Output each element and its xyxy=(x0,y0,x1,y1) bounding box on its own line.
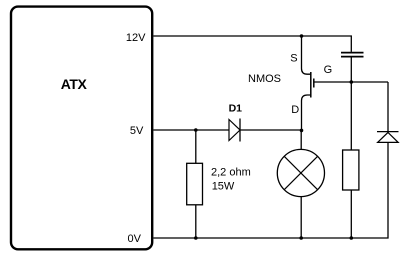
wire drain junction to lamp xyxy=(300,130,302,149)
wire lamp to 0V xyxy=(300,197,302,238)
diode D2 triangle xyxy=(378,132,399,142)
wire 12V rail: ATX to capacitor corner xyxy=(153,36,351,52)
resistor R2 body xyxy=(343,150,359,190)
lamp L1 cross diagonal 1 xyxy=(284,156,317,189)
wire right branch lower xyxy=(153,143,388,238)
svg-text:ATX: ATX xyxy=(61,76,88,92)
channel bar xyxy=(310,72,312,98)
lamp L1 circle xyxy=(277,149,324,196)
node junction 12V/source xyxy=(300,34,304,38)
node junction 5V/drain/lamp xyxy=(300,129,304,133)
ATX power supply box xyxy=(11,7,152,250)
svg-text:NMOS: NMOS xyxy=(248,73,281,85)
diode D1 cathode bar xyxy=(239,119,241,142)
wire resistor R1 to 0V xyxy=(195,205,197,238)
svg-text:0V: 0V xyxy=(128,233,142,245)
node junction 5V/resistor tap xyxy=(194,128,198,132)
gate bar xyxy=(313,79,315,88)
svg-text:D1: D1 xyxy=(229,102,243,114)
node junction gate/cap xyxy=(350,80,354,84)
wire gate node to resistor R2 xyxy=(350,82,352,150)
capacitor C1 bottom plate xyxy=(341,56,364,58)
wire right branch upper xyxy=(387,82,389,131)
drain lead xyxy=(302,95,311,130)
wire capacitor bottom to gate line xyxy=(350,57,352,82)
wire 5V rail left of D1 xyxy=(153,129,229,131)
svg-text:S: S xyxy=(290,53,297,65)
wire resistor R2 to 0V xyxy=(350,190,352,238)
diode D1 anode bar/triangle xyxy=(229,120,240,141)
svg-text:15W: 15W xyxy=(212,181,235,193)
svg-text:12V: 12V xyxy=(126,32,146,44)
svg-text:G: G xyxy=(324,64,333,76)
transistor Q1 NMOS xyxy=(302,36,314,130)
svg-text:2,2 ohm: 2,2 ohm xyxy=(211,166,251,178)
svg-text:5V: 5V xyxy=(130,125,144,137)
lamp L1 cross diagonal 2 xyxy=(284,156,317,189)
node junction 0V/R2 xyxy=(350,236,354,240)
node junction 0V/lamp xyxy=(299,236,303,240)
resistor R1 body xyxy=(187,163,203,205)
wire 5V rail right of D1 xyxy=(240,129,302,131)
node junction 0V/R1 xyxy=(194,236,198,240)
svg-text:D: D xyxy=(291,104,299,116)
source lead xyxy=(302,36,311,74)
capacitor C1 top plate xyxy=(341,52,364,54)
wire 5V to resistor R1 xyxy=(195,130,197,163)
wire gate line xyxy=(314,81,388,83)
diode D2 cathode bar xyxy=(377,131,399,133)
